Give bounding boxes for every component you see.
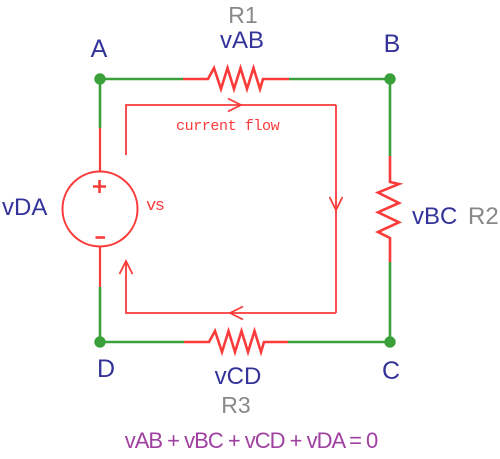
svg-text:vs: vs: [146, 197, 164, 216]
resistor R3: [184, 331, 288, 352]
voltage source VS circle: [63, 172, 138, 247]
svg-text:vCD: vCD: [215, 363, 262, 390]
resistor R2: [378, 156, 399, 262]
svg-text:R3: R3: [221, 392, 250, 418]
wire left A to source green segment: [99, 79, 102, 128]
current arrow left on bottom: [230, 307, 243, 320]
svg-text:R2: R2: [468, 203, 499, 230]
svg-text:vAB + vBC + vCD + vDA = 0: vAB + vBC + vCD + vDA = 0: [125, 428, 378, 453]
wire left red lead out of source: [99, 247, 101, 288]
current loop right segment: [335, 105, 337, 313]
svg-text:C: C: [382, 357, 400, 385]
wire right B-C green bottom segment: [389, 262, 392, 342]
node A: [94, 73, 105, 84]
node B: [384, 73, 395, 84]
svg-text:vBC: vBC: [412, 203, 457, 230]
wire right B-C green top segment: [389, 79, 392, 156]
node D: [94, 336, 105, 347]
svg-text:D: D: [97, 355, 115, 383]
node C: [384, 336, 395, 347]
svg-text:B: B: [384, 30, 401, 58]
voltage source plus sign: [93, 180, 106, 193]
wire bottom D-C green right segment: [288, 341, 390, 344]
current loop top-left segment: [126, 105, 336, 155]
voltage source minus sign: [96, 236, 106, 239]
svg-text:current flow: current flow: [176, 118, 280, 135]
wire top A-B green left segment: [100, 78, 183, 81]
wire left red lead into source: [99, 128, 101, 172]
wire left source to D green segment: [99, 287, 102, 342]
resistor R1: [183, 68, 289, 89]
svg-text:R1: R1: [228, 2, 257, 28]
wire top A-B green right segment: [289, 78, 390, 81]
current loop bottom segment: [126, 262, 336, 313]
svg-text:vAB: vAB: [220, 27, 264, 54]
svg-text:A: A: [91, 35, 108, 63]
current arrow right on top: [228, 99, 241, 112]
current arrow down on right: [330, 197, 343, 210]
current arrow up on left: [120, 261, 133, 274]
wire bottom D-C green left segment: [100, 341, 184, 344]
svg-text:vDA: vDA: [2, 194, 47, 221]
